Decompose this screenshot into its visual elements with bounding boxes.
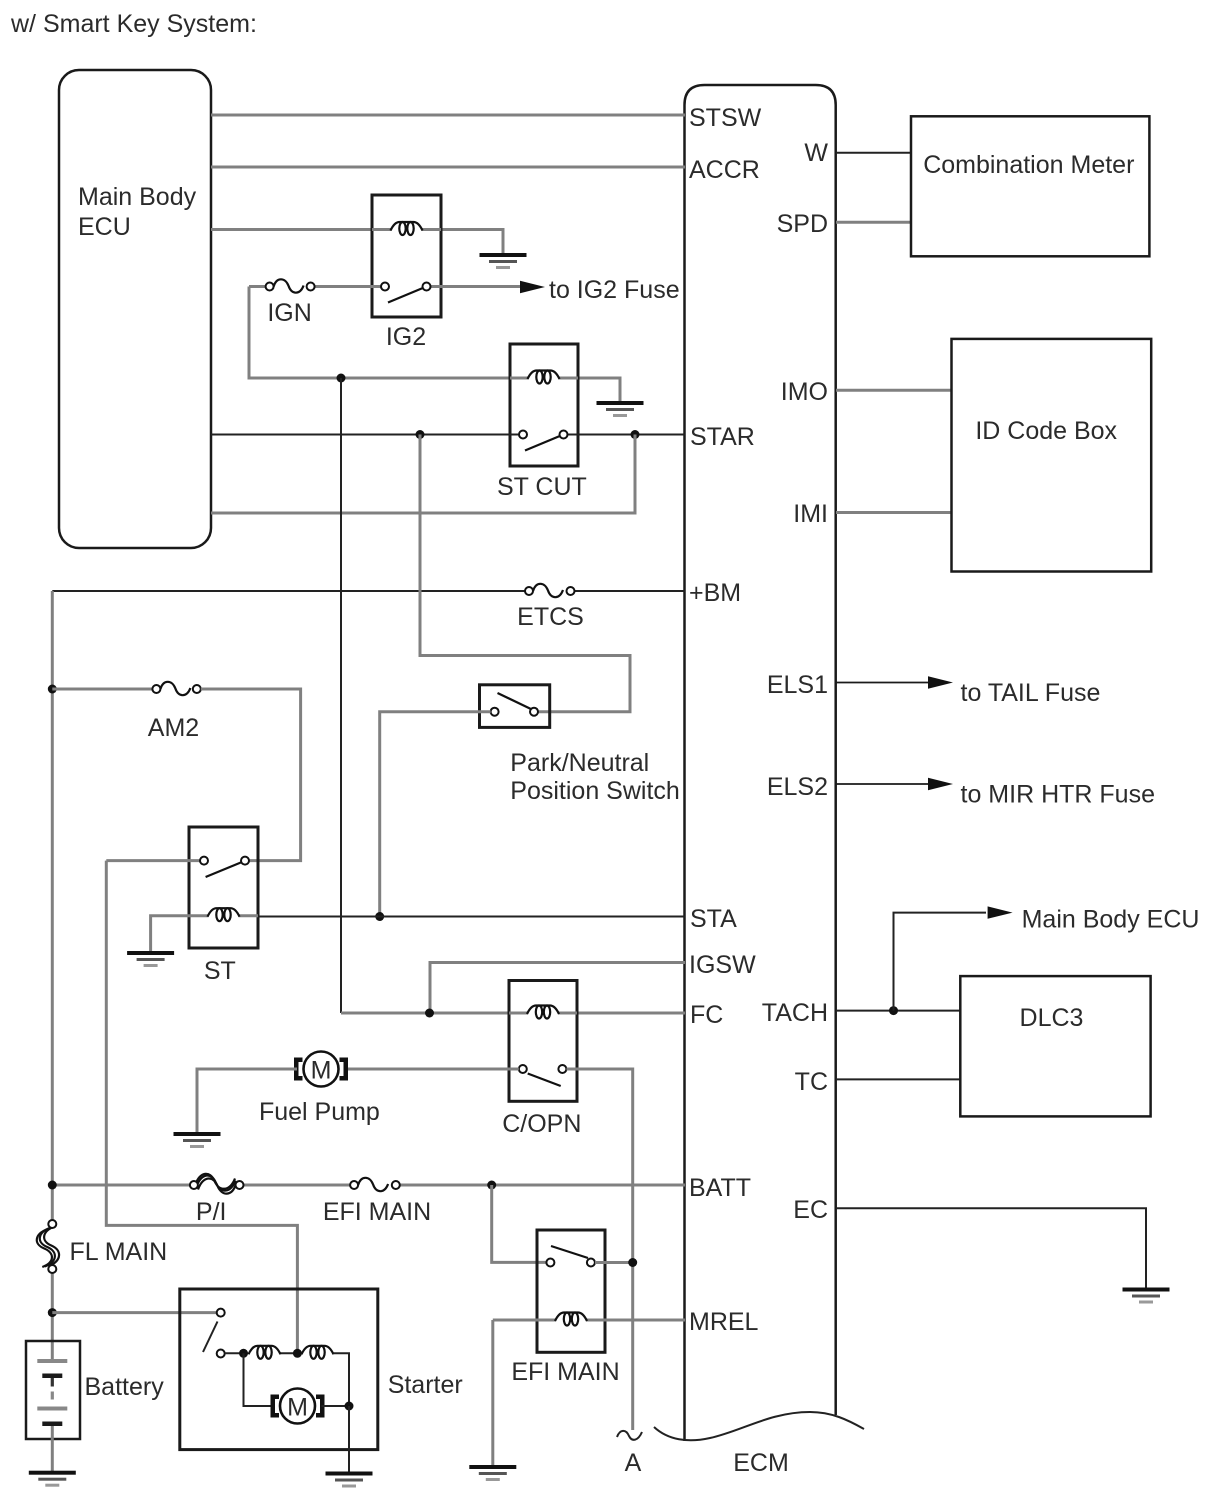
svg-text:to MIR HTR Fuse: to MIR HTR Fuse xyxy=(961,781,1155,809)
wire battery to ground xyxy=(51,1426,54,1472)
motor starter xyxy=(271,1389,325,1424)
node junction FC-IGSW xyxy=(425,1009,434,1018)
relay ST switch xyxy=(106,857,249,877)
node starter motor junction xyxy=(345,1402,354,1411)
wire EFI relay switch out to node A line xyxy=(595,1261,633,1264)
wire P/N to STA junction xyxy=(380,712,491,917)
svg-text:ETCS: ETCS xyxy=(517,603,584,631)
relay C/OPN box xyxy=(509,981,577,1102)
wire FC xyxy=(341,1012,685,1015)
svg-text:ECM: ECM xyxy=(733,1449,789,1477)
svg-text:STA: STA xyxy=(690,905,737,933)
wire BATT xyxy=(52,1184,685,1187)
wire EC xyxy=(836,1208,1146,1288)
wire vertical x52 battery feed xyxy=(51,591,54,1359)
wire MREL xyxy=(493,1319,685,1322)
DLC3 box xyxy=(960,976,1150,1116)
svg-text:ID Code Box: ID Code Box xyxy=(975,417,1117,445)
svg-text:AM2: AM2 xyxy=(148,714,199,742)
relay ST CUT coil xyxy=(528,371,560,384)
svg-text:Position Switch: Position Switch xyxy=(510,777,680,805)
svg-text:ELS2: ELS2 xyxy=(767,773,828,801)
relay EFI MAIN box xyxy=(537,1230,605,1352)
wire IMO xyxy=(836,389,952,392)
ECM box xyxy=(654,85,864,1441)
relay ST CUT box xyxy=(510,344,578,466)
node junction IGN-STCUT xyxy=(337,374,346,383)
ground fuel pump xyxy=(174,1132,221,1148)
node junction EFI out xyxy=(628,1258,637,1267)
wire ELS2 xyxy=(836,783,929,785)
fusible link P/I xyxy=(190,1174,244,1194)
relay ST box xyxy=(189,827,258,948)
ground EC xyxy=(1123,1288,1170,1304)
node junction STA xyxy=(375,912,384,921)
svg-text:TACH: TACH xyxy=(762,999,828,1027)
wire fuel pump to ground xyxy=(197,1069,297,1133)
ground EFI MAIN coil xyxy=(469,1465,516,1481)
wire vertical x341 black xyxy=(340,378,342,1013)
node junction TACH xyxy=(889,1006,898,1015)
node junction STAR x635 xyxy=(631,430,640,439)
motor Fuel Pump xyxy=(294,1052,348,1087)
wire coil1 branch to motor left xyxy=(244,1353,275,1406)
wire motor right to ground xyxy=(322,1405,350,1407)
wire IG2 coil feed xyxy=(211,228,372,231)
wire ACCR xyxy=(211,166,685,169)
arrow to MIR HTR Fuse xyxy=(928,778,953,790)
starter box xyxy=(180,1289,378,1450)
wire battery to starter switch xyxy=(52,1311,216,1314)
wire IGSW xyxy=(430,963,685,1014)
wire starter switch to solenoid xyxy=(225,1352,248,1354)
relay C/OPN switch xyxy=(519,1065,567,1086)
fusible link FL MAIN xyxy=(37,1220,59,1273)
svg-text:TC: TC xyxy=(795,1068,828,1096)
relay C/OPN coil xyxy=(527,1006,559,1019)
wire IMI xyxy=(836,511,952,514)
svg-text:Starter: Starter xyxy=(388,1371,463,1399)
ground starter xyxy=(326,1472,373,1488)
node junction battery-starter xyxy=(48,1308,57,1317)
wire ST CUT coil stubs xyxy=(510,377,578,380)
wire coil2 to motor right xyxy=(334,1353,350,1406)
svg-text:P/I: P/I xyxy=(196,1198,227,1226)
node A squiggle xyxy=(617,1431,642,1440)
wire STA xyxy=(258,916,685,918)
svg-text:ST: ST xyxy=(204,957,236,985)
wire STSW xyxy=(211,114,685,117)
svg-text:to IG2 Fuse: to IG2 Fuse xyxy=(549,276,680,304)
switch Park/Neutral label xyxy=(510,749,680,805)
relay IG2 switch xyxy=(315,283,520,303)
wire SPD xyxy=(836,221,911,224)
svg-text:Fuel Pump: Fuel Pump xyxy=(259,1098,380,1126)
svg-text:ACCR: ACCR xyxy=(689,156,760,184)
node starter junction mid xyxy=(293,1349,302,1358)
wire ST switch to starter xyxy=(106,861,297,1353)
svg-text:Battery: Battery xyxy=(85,1373,165,1401)
relay ST CUT switch xyxy=(519,431,568,451)
wire W xyxy=(836,152,911,154)
svg-text:M: M xyxy=(311,1057,332,1085)
wire ST coil stubs xyxy=(189,914,258,917)
svg-text:DLC3: DLC3 xyxy=(1020,1004,1084,1032)
relay IG2 coil xyxy=(391,222,423,235)
fuse EFI MAIN xyxy=(350,1178,400,1191)
Main Body ECU box xyxy=(59,70,211,548)
relay ST coil xyxy=(208,908,240,921)
svg-text:EFI MAIN: EFI MAIN xyxy=(323,1198,431,1226)
wire C/OPN coil stubs xyxy=(509,1012,577,1015)
starter solenoid coil 2 xyxy=(302,1346,334,1359)
svg-text:IMO: IMO xyxy=(781,378,828,406)
relay EFI MAIN coil xyxy=(555,1313,587,1326)
svg-text:w/ Smart Key System:: w/ Smart Key System: xyxy=(10,10,257,38)
wire +BM / ETCS xyxy=(52,590,685,592)
wire IG2 coil to ground xyxy=(441,230,503,255)
wire MREL coil to ground xyxy=(491,1320,494,1466)
ground ST CUT xyxy=(597,401,644,417)
switch Park/Neutral box xyxy=(480,685,550,728)
wire EFI MAIN coil stubs xyxy=(537,1319,605,1322)
wire TACH xyxy=(836,1010,960,1012)
svg-text:SPD: SPD xyxy=(777,210,828,238)
svg-text:+BM: +BM xyxy=(689,579,741,607)
svg-text:IGN: IGN xyxy=(267,299,311,327)
ground ST xyxy=(127,951,174,967)
Combination Meter box xyxy=(911,116,1149,256)
svg-text:STAR: STAR xyxy=(690,423,755,451)
fuse AM2 xyxy=(52,682,201,695)
svg-text:FC: FC xyxy=(690,1001,723,1029)
node junction STAR x420 xyxy=(416,430,425,439)
ground IG2 xyxy=(480,253,527,269)
svg-text:W: W xyxy=(804,139,828,167)
arrow Main Body ECU xyxy=(988,906,1013,918)
wire ST coil to ground xyxy=(151,916,189,952)
node starter junction left xyxy=(239,1349,248,1358)
wire STAR line xyxy=(211,434,685,436)
svg-text:to TAIL Fuse: to TAIL Fuse xyxy=(961,679,1101,707)
wire AM2 to ST switch xyxy=(201,689,301,861)
svg-text:ELS1: ELS1 xyxy=(767,671,828,699)
svg-text:FL MAIN: FL MAIN xyxy=(70,1238,168,1266)
wire TC xyxy=(836,1078,960,1080)
svg-text:MREL: MREL xyxy=(689,1308,759,1336)
starter switch xyxy=(203,1309,225,1358)
svg-text:EFI MAIN: EFI MAIN xyxy=(511,1358,619,1386)
svg-text:BATT: BATT xyxy=(689,1174,751,1202)
wire ELS1 xyxy=(836,682,929,684)
wire BATT to EFI relay switch xyxy=(492,1185,547,1262)
svg-text:Park/Neutral: Park/Neutral xyxy=(510,749,649,777)
svg-text:EC: EC xyxy=(793,1196,828,1224)
starter solenoid coil 1 xyxy=(249,1346,281,1359)
svg-text:Main Body: Main Body xyxy=(78,183,197,211)
relay EFI MAIN switch xyxy=(546,1246,595,1267)
switch Park/Neutral contacts xyxy=(491,693,538,716)
wire MB ECU 5th pin up to STAR xyxy=(211,435,635,514)
svg-text:ECU: ECU xyxy=(78,213,131,241)
ID Code Box xyxy=(952,339,1152,572)
wire ST CUT coil to ground xyxy=(578,378,620,402)
node junction AM2 xyxy=(48,685,57,694)
wire IGN elbow down xyxy=(249,287,510,379)
svg-text:STSW: STSW xyxy=(689,104,762,132)
node junction BATT-EFI relay xyxy=(487,1181,496,1190)
fuse IGN xyxy=(249,279,315,292)
arrow to IG2 Fuse xyxy=(520,281,545,293)
ground battery xyxy=(29,1471,76,1487)
svg-text:A: A xyxy=(625,1449,642,1477)
wire starter to ground xyxy=(348,1406,350,1473)
svg-text:Main Body ECU: Main Body ECU xyxy=(1022,906,1200,934)
svg-text:ST CUT: ST CUT xyxy=(497,473,587,501)
svg-text:C/OPN: C/OPN xyxy=(502,1110,581,1138)
wire starter coil stubs xyxy=(280,1352,303,1354)
wire P/N feed from STAR xyxy=(420,435,630,712)
svg-text:M: M xyxy=(287,1394,308,1422)
wire TACH branch to Main Body ECU arrow xyxy=(894,913,987,1011)
relay IG2 box xyxy=(372,195,441,317)
svg-text:IMI: IMI xyxy=(793,500,828,528)
wire fuel pump to C/OPN xyxy=(344,1068,519,1071)
node junction BATT left xyxy=(48,1181,57,1190)
wire IG2 coil stubs xyxy=(372,228,441,231)
arrow to TAIL Fuse xyxy=(928,676,953,688)
battery plates xyxy=(37,1359,67,1426)
battery box xyxy=(26,1341,80,1439)
svg-text:IG2: IG2 xyxy=(386,323,426,351)
svg-text:IGSW: IGSW xyxy=(689,951,756,979)
svg-text:Combination Meter: Combination Meter xyxy=(923,151,1134,179)
wire C/OPN out down to node A xyxy=(567,1069,633,1430)
fuse ETCS xyxy=(525,584,575,597)
